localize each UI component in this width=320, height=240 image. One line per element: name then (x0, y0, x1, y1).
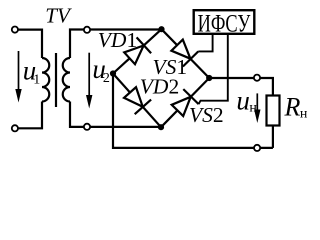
svg-text:VS1: VS1 (153, 55, 188, 79)
wire bottom-left primary return (18, 102, 42, 129)
svg-text:Rн: Rн (284, 92, 308, 121)
svg-text:ИФСУ: ИФСУ (198, 8, 251, 37)
terminal u2 bottom (84, 124, 90, 130)
resistor Rn load (267, 96, 280, 126)
wire VS2 gate to control unit (199, 35, 228, 104)
thyristor VS2 symbol (172, 89, 199, 116)
diode VD2 symbol (124, 87, 151, 114)
diode VD1 symbol (124, 37, 151, 64)
terminal output bottom (254, 145, 260, 151)
wire bridge minus rail (113, 74, 273, 148)
wire resistor bottom lead (272, 126, 274, 148)
transformer TV primary winding (42, 58, 49, 102)
svg-text:uн: uн (236, 85, 257, 115)
svg-text:u1: u1 (23, 55, 41, 87)
terminal top-left (12, 27, 18, 33)
thyristor VS1 symbol (171, 40, 198, 67)
wire thyristor VS2 arm (161, 78, 209, 127)
svg-text:TV: TV (45, 4, 72, 28)
wire VS1 gate to control unit (198, 35, 212, 51)
transformer TV secondary winding (63, 58, 70, 102)
wire diode VD1 arm (113, 29, 162, 73)
terminal output top (254, 75, 260, 81)
wire thyristor VS1 arm (162, 29, 210, 78)
svg-text:VD1: VD1 (98, 28, 137, 52)
wire secondary top to bridge (70, 30, 162, 59)
arrow u1 (15, 51, 21, 103)
wire diode VD2 arm (113, 74, 161, 128)
transformer core (55, 53, 57, 107)
control unit IFSU box (194, 10, 255, 34)
wire secondary bottom to bridge bottom node (70, 102, 161, 127)
svg-text:VS2: VS2 (189, 103, 224, 127)
terminal bottom-left (12, 125, 18, 131)
svg-text:u2: u2 (92, 54, 110, 86)
node right DC junction (206, 75, 212, 81)
node left DC junction (110, 70, 116, 76)
wire top-left primary input (18, 30, 42, 58)
arrow u2 (86, 53, 92, 109)
terminal u2 top (84, 27, 90, 33)
arrow un (254, 93, 260, 123)
wire bridge plus output (209, 78, 273, 96)
node bottom AC junction (158, 124, 164, 130)
node top AC junction (158, 26, 164, 32)
